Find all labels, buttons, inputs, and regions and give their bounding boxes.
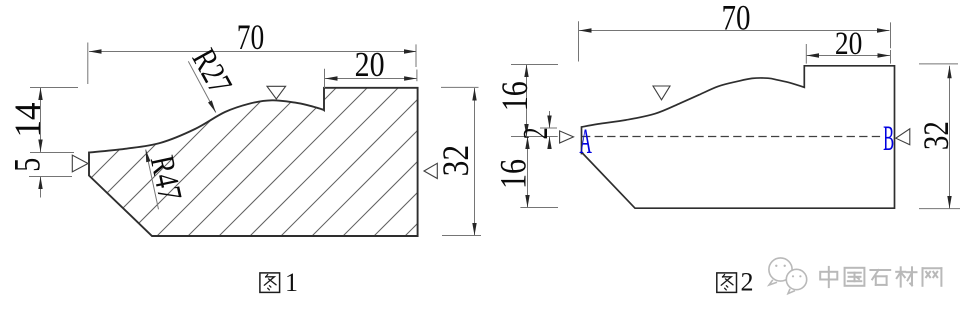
- watermark wechat icon: [769, 258, 807, 294]
- svg-text:2: 2: [516, 127, 555, 139]
- dim 70 top: [87, 43, 89, 85]
- dim 32 right fig2: [919, 63, 958, 65]
- hatch lines 45deg: [19, 60, 581, 250]
- figure 2: outline profile with section line A-B: [582, 66, 895, 208]
- svg-text:B: B: [883, 118, 894, 158]
- dashed section line A-B: [582, 136, 883, 138]
- radius R47 leader: [146, 150, 159, 210]
- watermark text: zhong guo shi cai wang: [820, 267, 837, 287]
- finish triangle left fig1: [72, 155, 88, 172]
- finish triangle on curve fig2: [653, 86, 670, 100]
- profile outline: [89, 88, 418, 236]
- svg-text:A: A: [579, 121, 592, 161]
- finish triangle on curve fig1: [267, 86, 286, 99]
- dim 16 upper left fig2: [511, 64, 558, 66]
- dim 2 left fig2: [540, 127, 557, 129]
- svg-text:32: 32: [916, 121, 956, 150]
- finish triangle left fig2: [560, 131, 574, 143]
- svg-text:16: 16: [494, 81, 535, 111]
- finish triangle right fig2: [896, 129, 910, 145]
- svg-text:2: 2: [741, 268, 754, 297]
- dim 5 left: [29, 176, 72, 178]
- caption fig 1 (TU 1): [260, 273, 280, 293]
- caption fig 2 (TU 2): [717, 273, 737, 293]
- svg-text:70: 70: [237, 17, 265, 57]
- finish triangle right fig1: [424, 163, 437, 178]
- dim 70 top fig2: [578, 21, 580, 61]
- svg-text:5: 5: [8, 158, 49, 172]
- svg-text:70: 70: [722, 0, 751, 38]
- svg-text:20: 20: [355, 46, 385, 84]
- svg-text:20: 20: [835, 26, 863, 62]
- dim 16 lower left fig2: [520, 207, 558, 209]
- svg-text:14: 14: [8, 103, 49, 138]
- radius R27 leader: [188, 61, 216, 112]
- dim 32 right: [441, 86, 479, 88]
- svg-text:1: 1: [285, 268, 298, 297]
- dim 20 top right: [324, 69, 326, 88]
- svg-text:32: 32: [436, 145, 477, 177]
- dim 20 top right fig2: [805, 44, 807, 64]
- dim 14 left: [30, 87, 78, 89]
- svg-text:16: 16: [493, 159, 534, 189]
